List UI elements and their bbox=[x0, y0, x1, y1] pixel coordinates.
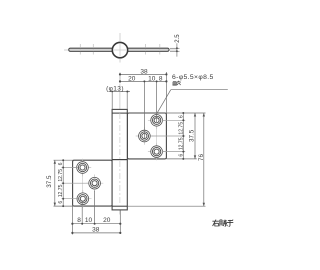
svg-text:12.75: 12.75 bbox=[178, 122, 184, 135]
svg-text:(φ13): (φ13) bbox=[106, 86, 124, 93]
svg-text:37.5: 37.5 bbox=[46, 175, 53, 188]
svg-text:20: 20 bbox=[128, 76, 136, 83]
svg-text:10: 10 bbox=[148, 76, 156, 83]
svg-text:8: 8 bbox=[77, 217, 81, 224]
svg-text:20: 20 bbox=[103, 217, 111, 224]
svg-text:12.75: 12.75 bbox=[58, 184, 64, 197]
svg-text:10: 10 bbox=[85, 217, 93, 224]
svg-text:2.5: 2.5 bbox=[175, 34, 181, 43]
svg-text:8: 8 bbox=[159, 76, 163, 83]
svg-text:6-φ5.5×φ8.5: 6-φ5.5×φ8.5 bbox=[172, 74, 214, 81]
svg-text:12.75: 12.75 bbox=[178, 137, 184, 150]
svg-text:38: 38 bbox=[92, 226, 100, 233]
svg-text:6: 6 bbox=[58, 201, 64, 204]
svg-text:6: 6 bbox=[58, 162, 64, 165]
svg-text:12.75: 12.75 bbox=[58, 169, 64, 182]
svg-text:76: 76 bbox=[198, 154, 205, 162]
svg-text:38: 38 bbox=[140, 69, 148, 76]
svg-text:6: 6 bbox=[178, 115, 184, 118]
svg-text:6: 6 bbox=[178, 154, 184, 157]
svg-text:37.5: 37.5 bbox=[189, 129, 196, 142]
